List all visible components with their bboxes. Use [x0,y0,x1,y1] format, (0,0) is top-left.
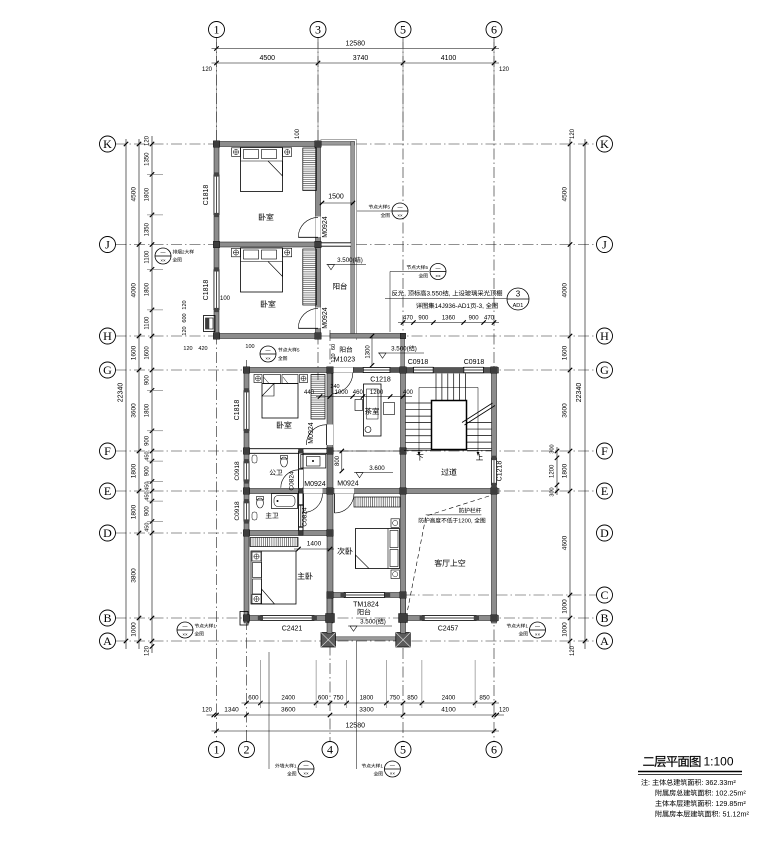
svg-text:): ) [384,619,386,626]
svg-text:1:100: 1:100 [704,755,734,769]
svg-text:12580: 12580 [346,723,366,730]
svg-text:1200: 1200 [550,464,556,478]
svg-text:M0924: M0924 [322,307,329,329]
svg-text:1400: 1400 [307,541,322,548]
svg-text:C1218: C1218 [497,461,504,482]
grid line row F [116,450,597,452]
wall row G stairwell (c5-c6) [401,368,499,374]
svg-text:22340: 22340 [576,383,583,403]
bottom dimension chain 1 [242,702,500,704]
svg-text:120: 120 [570,645,576,656]
grid bubble F right [597,443,613,459]
room label balcony bottom [358,609,364,615]
tea room bottom edge [333,450,401,452]
svg-text:××: ×× [435,274,441,279]
room label living room void [435,559,442,566]
door M0924 lower bedroom (opening) [316,308,321,329]
svg-text:3800: 3800 [131,568,138,583]
svg-text:750: 750 [390,695,401,702]
window C0918 in wall G stair west [413,367,433,373]
svg-text:1000: 1000 [131,622,138,637]
wall partition master-bath east (E-D) [299,491,303,533]
svg-text:): ) [415,346,417,353]
svg-text:—: — [535,624,540,630]
svg-text:2400: 2400 [442,695,456,702]
door bath1 leaf and swing [298,470,300,488]
grid bubble B left [100,610,116,626]
svg-text:120: 120 [202,708,213,714]
svg-text:1300: 1300 [366,345,372,359]
svg-text:C0918: C0918 [408,359,429,366]
left dimension chain 2 [151,136,153,653]
wall row F (c2-c4) [244,449,333,454]
stair treads right flight [467,422,492,424]
wall partition bath east (F-E) [299,451,303,491]
level mark 3.500 mid balcony [378,352,424,354]
stair treads top flight [435,374,437,401]
top dimension chain 4500/3740/4100 [212,62,500,64]
svg-text:,: , [404,291,406,298]
svg-text:1600: 1600 [145,346,151,360]
grid bubble A left [100,633,116,649]
detail symbol node5 mid-left [260,346,276,362]
svg-text:4000: 4000 [131,283,138,298]
svg-text:3.600: 3.600 [369,465,385,472]
room label master bath [266,512,272,518]
level mark 3.500 bottom balcony [348,625,392,627]
svg-text:A: A [600,634,609,648]
grid bubble 5 bottom [395,742,411,758]
dim 100 top [295,128,301,139]
svg-text:120: 120 [145,645,151,656]
svg-text:C2457: C2457 [438,626,459,633]
svg-text:C0918: C0918 [234,461,241,481]
svg-text:1800: 1800 [145,187,151,201]
grid bubble E right [597,483,613,499]
svg-text:22340: 22340 [118,383,125,403]
label C0824 bath1 [289,471,296,491]
svg-text:100: 100 [295,128,301,139]
detail symbol node1 right [530,622,546,638]
roof annotation text [385,298,507,300]
svg-text:1: 1 [213,624,216,630]
door M0924 master bath opening in wall E [304,489,323,494]
svg-text:440: 440 [304,390,315,396]
room label balcony top [333,283,339,290]
bed bedroom 3 [356,529,400,569]
door M1023 balcony opening in wall G [331,368,354,373]
label C1818 c1 upper [203,185,210,206]
svg-text:1360: 1360 [442,316,456,322]
bed lower bedroom [241,248,283,292]
svg-text:850: 850 [479,695,490,702]
svg-text:4100: 4100 [441,707,456,714]
corner block at B west [240,612,248,626]
svg-text:B: B [600,611,608,625]
label C1818 c2 [234,400,241,421]
svg-text:3600: 3600 [562,403,569,418]
svg-text:1200: 1200 [370,390,384,396]
right dimension chain [569,139,571,649]
wall column 1 top block [214,142,219,339]
detail symbol node5 right [390,271,429,273]
grid line row K [116,143,597,145]
label M0924 balcony upper [322,216,329,238]
window C0918 in wall G stair east [464,367,484,373]
grid bubble 6 bottom [486,742,502,758]
room label tea room [365,408,372,415]
wall row G (c2-c4) [244,368,333,373]
svg-text:120: 120 [182,326,188,335]
stair arrow heads [418,452,421,456]
balcony M1023 top wall at H [330,334,403,339]
svg-text:450: 450 [145,523,151,532]
svg-text:—: — [390,763,395,769]
svg-text:3.500(: 3.500( [391,346,409,353]
room label bedroom lower [261,300,268,307]
svg-text:450: 450 [145,482,151,491]
grid bubble D right [597,525,613,541]
balcony bottom rail (row A) [333,637,398,640]
svg-text:1: 1 [294,764,297,770]
svg-text:M0924: M0924 [337,481,359,488]
door M0924 upper bedroom (opening) [316,217,321,238]
svg-text:××: ×× [182,632,188,637]
svg-text:600: 600 [248,695,259,702]
svg-text:C1218: C1218 [370,377,391,384]
svg-text:2: 2 [182,250,185,256]
grid bubble 4 bottom [322,742,338,758]
svg-text:: 362.33m²: : 362.33m² [701,778,736,787]
svg-text:—: — [304,763,309,769]
svg-text:100: 100 [245,344,254,350]
label M0924 balcony lower [322,307,329,329]
svg-text:—: — [183,624,188,630]
svg-text:120: 120 [183,346,192,352]
balcony rail divider at J [321,243,351,246]
detail symbol node5 top [357,210,392,212]
wall row E (c2-c6) [244,489,499,494]
svg-text:1200,: 1200, [458,519,473,525]
grid line row H [116,335,597,337]
svg-text:6: 6 [491,23,497,37]
grid line row E [116,490,597,492]
stair treads left flight [406,402,432,404]
svg-text:100: 100 [220,296,231,302]
svg-text:C1818: C1818 [203,280,210,301]
bedside tables upper bedroom [232,148,241,157]
dark piers stair top wall [406,368,414,373]
grid line row C [404,594,597,596]
svg-text:—: — [436,266,441,272]
dim 1500 top balcony [321,202,355,204]
svg-text:1800: 1800 [145,403,151,417]
room label master bedroom [298,572,305,579]
balcony M1023 right rail c5 [401,334,405,371]
door bath1 opening in partition [299,470,303,488]
svg-text:,: , [449,291,451,298]
tea room table [364,384,382,436]
svg-text:3: 3 [516,290,521,299]
svg-text:1800: 1800 [360,695,374,702]
wall row D (c2-c4) [244,531,333,536]
svg-text:3300: 3300 [359,707,374,714]
svg-text:—: — [161,250,166,256]
svg-text:××: ×× [390,771,396,776]
svg-text:D: D [600,526,609,540]
stair down label [417,454,424,460]
svg-text:460: 460 [353,390,364,396]
svg-text:1600: 1600 [131,345,138,360]
door M1023 leaf and swing [331,373,333,394]
wall column 5 (H to B) [401,370,406,623]
bedside tables master bedroom [252,552,261,561]
svg-text:1340: 1340 [224,707,239,714]
stair up label [476,454,483,460]
door M0924 lower bedroom leaf and swing [298,327,318,329]
notes [641,779,648,786]
svg-text:C0918: C0918 [464,359,485,366]
balcony corner column left with X [321,633,336,648]
stair guide lines [419,387,478,389]
svg-text:1350: 1350 [145,152,151,166]
room label bedroom 3 [337,547,344,554]
door M0924 bedroom3 leaf and swing [334,494,336,514]
label C0824 master bath [302,507,309,527]
grid line row B [116,617,597,619]
svg-text:: 129.85m²: : 129.85m² [711,799,746,808]
wall column 2 (G to B) [244,368,249,624]
svg-text:1: 1 [380,764,383,770]
wall row C (c4-c5) with door TM1824 [327,593,406,598]
svg-text:120: 120 [331,353,337,362]
svg-text:××: ×× [303,771,309,776]
master bath toilet [257,498,264,508]
svg-text:-3,: -3, [476,303,484,310]
svg-text:: 102.25m²: : 102.25m² [711,789,746,798]
svg-text:G: G [103,363,112,377]
svg-text:××: ×× [397,213,403,218]
window C1818 in wall c1 lower [214,269,219,310]
svg-text:4500: 4500 [259,55,275,62]
svg-text:—: — [266,348,271,354]
svg-text:C: C [600,588,608,602]
svg-text:C0918: C0918 [234,501,241,521]
svg-text:E: E [104,484,111,498]
svg-text:C0824: C0824 [289,471,296,491]
grid line column 3 [317,38,319,381]
svg-text:4500: 4500 [562,187,569,202]
door TM1824 in wall C [344,593,385,598]
grid bubble 6 top [486,22,502,38]
grid bubble J right [597,237,613,253]
svg-text:B: B [103,611,111,625]
bed bedroom 2 (middle) [262,384,298,419]
door M0924 upper bedroom leaf and swing [298,236,318,238]
svg-text:J: J [105,238,110,252]
wall row H [214,334,321,339]
svg-text:900: 900 [145,506,151,517]
room label corridor [441,468,448,475]
dark piers G wall c4-c5 [354,368,363,372]
level mark 3.600 corridor [354,472,393,474]
right mini chain 300/1200/300 [556,447,558,495]
svg-text:60: 60 [331,344,337,350]
detail symbol node1 left [177,622,193,638]
stair bottom edge [404,449,492,451]
door M0924 bedroom2 leaf and swing [326,425,328,446]
bath1 toilet [281,457,288,467]
svg-text:G: G [600,363,609,377]
svg-text:A: A [103,634,112,648]
svg-text:××: ×× [160,258,166,263]
svg-text:××: ×× [265,356,271,361]
level mark 3.500 top balcony [327,264,367,266]
svg-text:600: 600 [182,313,188,322]
svg-text:14J936-AD1: 14J936-AD1 [435,303,471,310]
balcony side walls C to A [327,598,332,634]
svg-text:900: 900 [469,316,480,322]
bottom extension lines [259,660,261,708]
svg-text:H: H [103,329,112,343]
top dimension total 12580 [212,48,500,50]
svg-text:5: 5 [297,348,300,354]
svg-text:120: 120 [570,128,576,139]
window jamb blocks [214,172,219,176]
svg-text:120: 120 [499,708,510,714]
room label bedroom upper [259,213,266,220]
svg-text:M1023: M1023 [334,357,356,364]
svg-text:1600: 1600 [562,345,569,360]
dim 800 corridor [341,451,343,471]
svg-text:4: 4 [327,743,333,757]
window C0918 in wall c2 (F-E) [244,461,249,481]
svg-text:—: — [398,205,403,211]
svg-text:): ) [361,257,363,264]
svg-text:1: 1 [214,743,220,757]
svg-text:470: 470 [403,316,414,322]
svg-text:1100: 1100 [145,250,151,264]
grid bubble H right [597,328,613,344]
wall column 6 (G to B) [492,368,497,624]
svg-text:1000: 1000 [335,390,349,396]
svg-text:: 51.12m²: : 51.12m² [719,810,750,819]
grid line column 2 [246,360,248,742]
left total dimension 22340 [125,139,127,649]
grid bubble K right [597,136,613,152]
svg-text:1800: 1800 [145,282,151,296]
svg-text:F: F [601,444,608,458]
bedside tables lower bedroom [232,248,241,256]
grid bubble G left [100,362,116,378]
svg-text:900: 900 [145,466,151,477]
svg-text:2400: 2400 [281,695,295,702]
label C1818 c1 lower [203,280,210,301]
right total dimension 22340 [584,139,586,649]
grid line row J [116,244,597,246]
svg-text:600: 600 [318,695,329,702]
wardrobe upper bedroom [303,148,317,191]
door M0924 master bath leaf and swing [303,494,305,513]
svg-text:1800: 1800 [131,504,138,519]
bed upper bedroom [241,148,283,192]
grid line column 4 [329,330,331,742]
svg-text:C1818: C1818 [234,400,241,421]
grid bubble 5 top [395,22,411,38]
grid bubble 3 top [310,22,326,38]
wardrobe bedroom 3 [354,497,400,507]
svg-text:450: 450 [145,491,151,500]
dims 60 120 mid balcony [331,344,337,350]
label C1218 c6 [497,461,504,482]
wall row G (c4-c5) with door/window [330,368,403,373]
grid line row D [116,532,334,534]
svg-text:900: 900 [418,316,429,322]
roof annotation bubble 3/AD1 [507,288,529,310]
window C2421 in wall B [260,616,314,621]
svg-text:4600: 4600 [562,535,569,550]
grid line column 6 [493,38,495,742]
svg-text:5: 5 [387,205,390,211]
dim chain tea room 440/1000/460/1200/400 [316,396,412,398]
dims near shaft [182,300,188,309]
svg-text:12580: 12580 [346,41,366,48]
svg-text:M0924: M0924 [322,216,329,238]
svg-text:1000: 1000 [562,599,569,614]
balcony rail right (top block) [351,142,355,338]
svg-text:3.550: 3.550 [426,291,442,298]
label C0918 c2 lower [234,501,241,521]
grid line column 5 [402,38,404,742]
wall column 3 top block [316,142,321,339]
svg-text:800: 800 [335,455,341,466]
svg-text:1800: 1800 [131,463,138,478]
detail symbol node bottom [355,641,357,769]
svg-text:4000: 4000 [562,283,569,298]
bottom dimension chain 2 [207,714,505,716]
svg-text:3.500(: 3.500( [360,619,378,626]
window C2457 in wall B right [422,616,476,621]
svg-text:6: 6 [491,743,497,757]
svg-text:D: D [103,526,112,540]
tea room chairs [355,400,363,411]
svg-text:TM1824: TM1824 [353,602,379,609]
svg-text:2: 2 [244,743,250,757]
balcony corner column right with X [396,633,411,648]
void dashed guard line [408,496,490,611]
grid bubble 1 top [209,22,225,38]
dim 1300 mid balcony [371,336,373,365]
svg-text:400: 400 [403,390,414,396]
svg-text::: : [648,778,650,787]
guard rail leader [426,514,482,516]
svg-text:3740: 3740 [353,55,369,62]
svg-text:1: 1 [214,23,220,37]
svg-text:K: K [103,137,112,151]
grid bubble H left [100,328,116,344]
svg-text:120: 120 [182,300,188,309]
svg-text:420: 420 [198,346,207,352]
svg-text:3600: 3600 [131,403,138,418]
svg-text:470: 470 [484,316,495,322]
dim chain roof 470/900/1360/900/470 [398,322,499,324]
svg-text:1000: 1000 [562,622,569,637]
svg-text:5: 5 [400,23,406,37]
svg-text:5: 5 [425,265,428,271]
master bath tub [272,494,298,509]
title second floor plan [643,757,654,766]
bedside tables bedroom 2 [254,375,262,383]
